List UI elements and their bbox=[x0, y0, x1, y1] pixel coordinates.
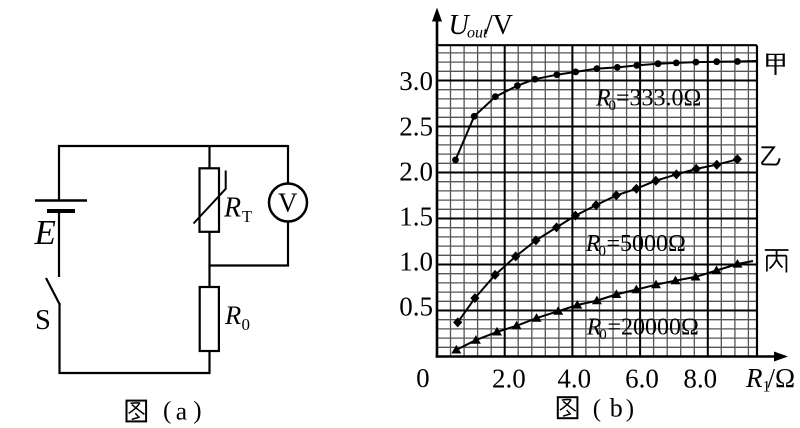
major gridline x=6.0 bbox=[639, 45, 641, 356]
battery E short plate bbox=[47, 209, 75, 213]
wire voltmeter top bbox=[287, 145, 289, 184]
wire below switch bbox=[58, 303, 60, 374]
major gridline y=1.0 bbox=[437, 264, 757, 266]
svg-text:(: ( bbox=[593, 396, 601, 423]
svg-text:2.0: 2.0 bbox=[492, 364, 526, 394]
y axis bbox=[436, 19, 439, 358]
svg-text:0: 0 bbox=[599, 244, 607, 260]
major gridline y=0.5 bbox=[437, 310, 757, 312]
svg-text:0: 0 bbox=[609, 98, 617, 114]
svg-text:6.0: 6.0 bbox=[625, 364, 659, 394]
wire node to voltmeter bbox=[210, 264, 290, 266]
svg-text:1.5: 1.5 bbox=[399, 202, 433, 232]
svg-text:0: 0 bbox=[242, 315, 251, 334]
switch S blade bbox=[46, 278, 60, 305]
wire right branch top bbox=[208, 146, 210, 169]
svg-text:2.5: 2.5 bbox=[399, 112, 433, 142]
plot border top bbox=[437, 44, 757, 46]
plot border right bbox=[756, 45, 758, 356]
curve jia line R0=333.0 bbox=[456, 61, 757, 160]
svg-text:b: b bbox=[610, 394, 623, 423]
major gridline x=2.0 bbox=[504, 45, 506, 356]
svg-text:R: R bbox=[223, 193, 241, 224]
wire top bbox=[58, 145, 288, 147]
major gridline y=3.0 bbox=[437, 80, 757, 82]
thermistor RT slash bbox=[194, 171, 226, 224]
svg-text:/Ω: /Ω bbox=[768, 363, 796, 393]
svg-text:T: T bbox=[242, 207, 252, 226]
svg-text:0.5: 0.5 bbox=[399, 292, 433, 322]
thermistor RT body bbox=[200, 168, 220, 232]
wire below battery bbox=[58, 211, 60, 277]
svg-text:0: 0 bbox=[416, 363, 430, 393]
battery E long plate bbox=[35, 199, 87, 201]
svg-text:0: 0 bbox=[599, 327, 607, 343]
svg-text:V: V bbox=[278, 188, 298, 218]
curve yi markers (diamonds) bbox=[453, 154, 742, 327]
wire below R0 bbox=[208, 351, 210, 374]
major gridline y=2.5 bbox=[437, 126, 757, 128]
caption 图(a) glyph tu bbox=[127, 401, 147, 422]
major gridline y=1.5 bbox=[437, 218, 757, 220]
minor grid bbox=[437, 45, 757, 356]
svg-text:3.0: 3.0 bbox=[399, 66, 433, 96]
svg-text:8.0: 8.0 bbox=[683, 364, 717, 394]
x axis bbox=[436, 355, 775, 358]
svg-text:R: R bbox=[745, 363, 763, 393]
curve jia markers (circles) bbox=[452, 58, 741, 163]
svg-text:): ) bbox=[626, 396, 634, 423]
voltmeter V circle bbox=[269, 184, 307, 222]
svg-text:=333.0Ω: =333.0Ω bbox=[616, 86, 701, 112]
svg-text:a: a bbox=[176, 396, 187, 425]
y axis arrowhead bbox=[432, 8, 442, 22]
wire RT to node bbox=[208, 232, 210, 267]
curve yi line R0=5000 bbox=[458, 159, 738, 322]
wire left upper bbox=[58, 145, 60, 200]
svg-text:(: ( bbox=[163, 398, 171, 425]
svg-text:S: S bbox=[35, 305, 51, 336]
major gridline y=2.0 bbox=[437, 172, 757, 174]
right label glyph jia bbox=[766, 54, 784, 75]
caption 图(b) glyph tu bbox=[558, 397, 578, 418]
wire bottom bbox=[59, 372, 211, 374]
right label glyph bing bbox=[765, 250, 789, 273]
curve bing line R0=20000 bbox=[456, 261, 753, 350]
svg-text:=5000Ω: =5000Ω bbox=[607, 231, 686, 257]
major gridline x=8.0 bbox=[707, 45, 709, 356]
major gridline x=4.0 bbox=[571, 45, 573, 356]
x axis arrowhead bbox=[774, 352, 788, 362]
curve bing markers (triangles) bbox=[451, 259, 742, 354]
wire voltmeter bottom bbox=[287, 222, 289, 267]
wire node to R0 bbox=[208, 266, 210, 288]
svg-text:=20000Ω: =20000Ω bbox=[608, 315, 699, 341]
svg-text:R: R bbox=[224, 300, 241, 330]
resistor R0 body bbox=[200, 287, 219, 351]
svg-text:4.0: 4.0 bbox=[557, 364, 591, 394]
svg-text:E: E bbox=[34, 213, 56, 252]
svg-text:1.0: 1.0 bbox=[399, 247, 433, 277]
svg-text:2.0: 2.0 bbox=[399, 157, 433, 187]
svg-text:): ) bbox=[193, 398, 201, 425]
svg-text:/V: /V bbox=[485, 10, 513, 41]
right label glyph yi bbox=[761, 147, 779, 164]
